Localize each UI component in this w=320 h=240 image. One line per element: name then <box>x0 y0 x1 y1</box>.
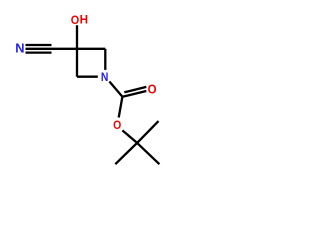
bond C3-OH + azetidine left edge <box>76 25 78 76</box>
bond N-C carbonyl <box>109 82 122 97</box>
svg-text:H: H <box>80 12 88 26</box>
svg-text:O: O <box>113 119 121 132</box>
carbonyl C=O second line <box>124 87 146 92</box>
azetidine bottom edge <box>77 76 98 78</box>
svg-text:N: N <box>101 72 109 85</box>
nitrile triple bond top line <box>26 44 52 46</box>
svg-text:O: O <box>71 14 79 27</box>
bond C-O ester <box>119 97 123 118</box>
bond O-C tBu <box>122 130 137 143</box>
nitrile triple bond middle line + bond C-C3 <box>26 48 106 50</box>
svg-text:O: O <box>148 82 157 97</box>
azetidine right edge <box>104 49 106 70</box>
tBu methyl down-left <box>115 143 137 164</box>
label OH (hydroxyl) <box>71 12 88 27</box>
svg-text:N: N <box>15 41 24 56</box>
tBu methyl down-right <box>137 143 159 164</box>
nitrile triple bond bottom line <box>26 51 52 53</box>
carbonyl C=O main line <box>122 91 146 97</box>
tBu methyl up-right <box>137 121 158 143</box>
